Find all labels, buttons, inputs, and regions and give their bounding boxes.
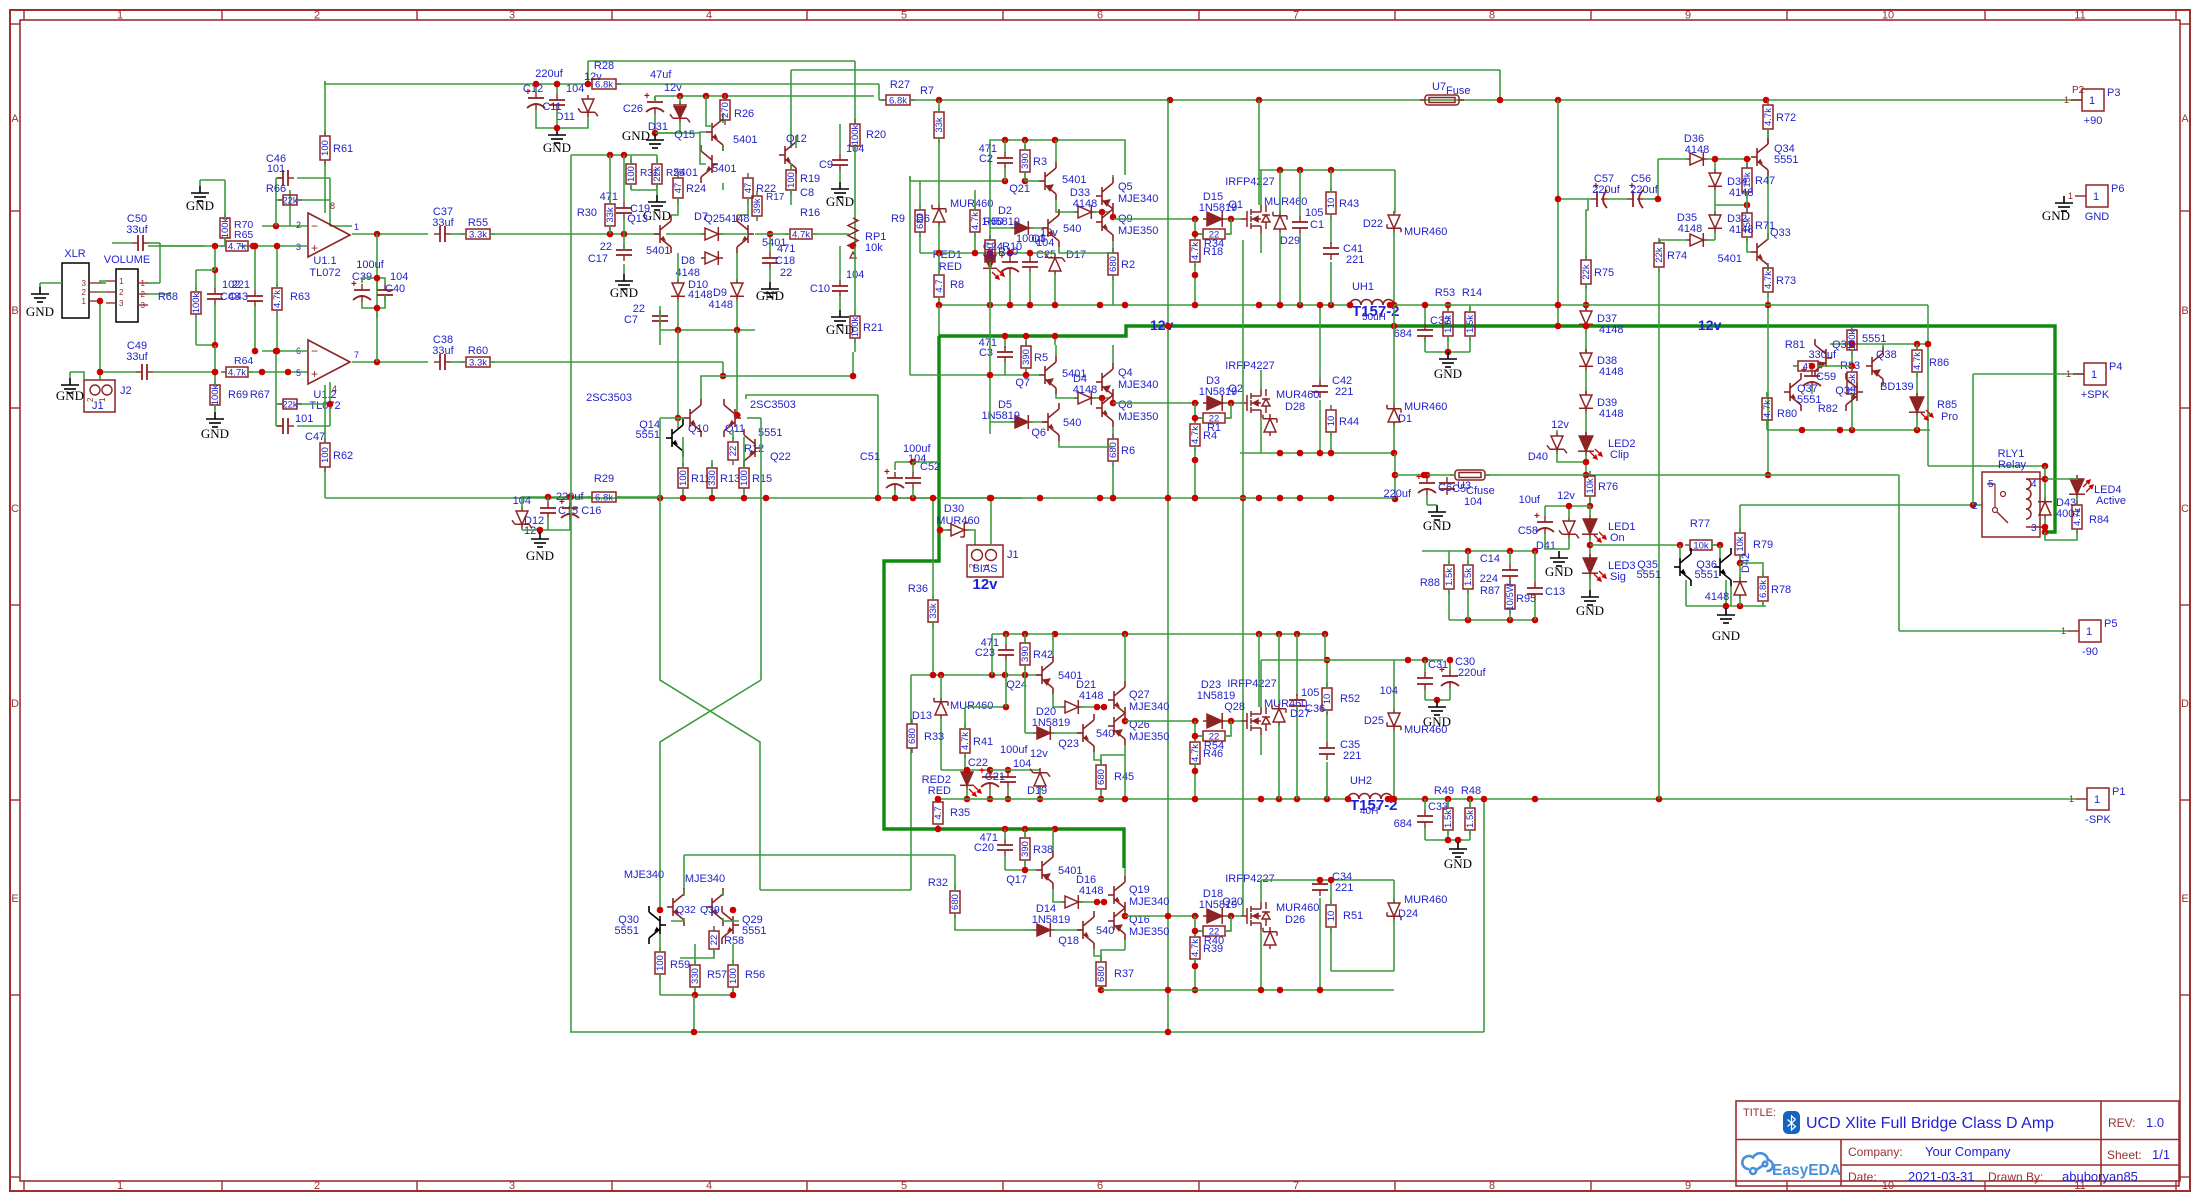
diode D21: [1061, 700, 1083, 714]
wire rail y675: [911, 674, 1042, 676]
svg-text:R86: R86: [1929, 357, 1949, 369]
transistor Q22: [744, 429, 761, 467]
svg-text:1.5k: 1.5k: [1444, 568, 1455, 586]
capacitor C34: [1312, 878, 1328, 896]
svg-text:3.3k: 3.3k: [469, 230, 487, 241]
transistor Q39c: [1846, 373, 1863, 411]
capacitor C19: [616, 202, 632, 219]
svg-text:C26: C26: [623, 103, 643, 115]
wire q35 emitters: [1685, 580, 1687, 606]
svg-text:8: 8: [1489, 1180, 1495, 1192]
svg-text:RED: RED: [939, 261, 962, 273]
svg-text:1: 1: [2061, 626, 2066, 636]
svg-text:224: 224: [1480, 573, 1498, 585]
port P1: [2076, 798, 2087, 800]
svg-text:22: 22: [709, 935, 720, 946]
svg-text:Q11: Q11: [725, 423, 745, 435]
wire gnd to Q15: [655, 132, 700, 134]
svg-text:C22: C22: [968, 757, 988, 769]
wire y57 to y81: [587, 61, 589, 84]
svg-text:R8: R8: [950, 279, 964, 291]
svg-text:R47: R47: [1755, 175, 1775, 187]
resistor R79: [1735, 528, 1745, 560]
port P3: [2071, 99, 2082, 101]
svg-text:R4: R4: [1203, 430, 1217, 442]
wire phase to C32: [1394, 304, 1440, 306]
resistor R80: [1762, 393, 1772, 425]
svg-text:5551: 5551: [636, 429, 660, 441]
diode D35: [1686, 233, 1708, 247]
wire base feeds: [678, 330, 684, 418]
svg-text:6.8k: 6.8k: [889, 96, 907, 107]
svg-text:390: 390: [1020, 153, 1031, 169]
svg-text:MJE340: MJE340: [624, 869, 664, 881]
svg-text:E: E: [11, 893, 18, 905]
svg-text:D22: D22: [1363, 218, 1383, 230]
svg-text:2: 2: [119, 288, 124, 297]
svg-text:U1.1: U1.1: [313, 255, 336, 267]
svg-text:33uf: 33uf: [432, 217, 454, 229]
resistor R6: [1108, 434, 1118, 466]
svg-text:100: 100: [320, 447, 331, 463]
svg-text:4148: 4148: [725, 213, 749, 225]
svg-text:IRFP4227: IRFP4227: [1225, 873, 1275, 885]
svg-text:MUR460: MUR460: [1264, 196, 1307, 208]
ground LED3: [1581, 590, 1599, 605]
diode D1: [1387, 404, 1401, 426]
svg-text:3.3k: 3.3k: [469, 358, 487, 369]
svg-text:Q19: Q19: [1129, 884, 1150, 896]
svg-text:Q23: Q23: [1058, 738, 1079, 750]
wire y475 -90 line: [1500, 474, 1899, 476]
transistor Q3: [1042, 209, 1059, 247]
bluetooth icon: [1783, 1111, 1800, 1134]
svg-text:−: −: [311, 219, 318, 233]
svg-text:R56: R56: [745, 969, 765, 981]
svg-text:R62: R62: [333, 450, 353, 462]
svg-text:220uf: 220uf: [535, 68, 563, 80]
ground D41: [1550, 551, 1568, 566]
svg-text:6.8k: 6.8k: [1758, 580, 1769, 598]
zener D17: [1045, 253, 1065, 275]
svg-text:6: 6: [1097, 10, 1103, 22]
diode D36: [1686, 152, 1708, 166]
wire x1261 lower: [1260, 660, 1262, 680]
diode D9: [730, 279, 744, 301]
svg-text:R74: R74: [1667, 250, 1687, 262]
wire cross diag b: [747, 417, 761, 419]
svg-text:R35: R35: [950, 807, 970, 819]
wire rail y453: [1240, 452, 1395, 454]
wire top rail A: [588, 60, 855, 62]
svg-text:R63: R63: [290, 291, 310, 303]
svg-text:3: 3: [509, 1180, 515, 1192]
resistor R77: [1685, 540, 1717, 550]
ground C6: [1428, 505, 1446, 520]
svg-text:C51: C51: [860, 451, 880, 463]
svg-text:10uf: 10uf: [1519, 494, 1541, 506]
wire base rail y181: [910, 180, 1005, 182]
svg-text:+: +: [1534, 511, 1540, 522]
resistor R63: [272, 283, 282, 315]
svg-text:R14: R14: [1462, 287, 1482, 299]
svg-text:D31: D31: [648, 121, 668, 133]
svg-text:B: B: [2181, 305, 2188, 317]
diode D39: [1579, 391, 1593, 413]
svg-text:12v: 12v: [1557, 490, 1575, 502]
svg-text:R88: R88: [1420, 577, 1440, 589]
resistor R38: [1020, 833, 1030, 865]
svg-text:680: 680: [985, 243, 996, 259]
svg-text:R19: R19: [800, 173, 820, 185]
svg-text:390: 390: [1020, 646, 1031, 662]
led LED3: [1582, 554, 1598, 578]
svg-text:1: 1: [354, 222, 359, 232]
capacitor C50: [132, 235, 149, 251]
wire spk rail y305 right: [1470, 304, 1928, 306]
svg-text:47: 47: [673, 183, 684, 194]
svg-text:4148: 4148: [1685, 144, 1709, 156]
svg-text:R64: R64: [234, 355, 253, 367]
capacitor C15: [540, 502, 556, 519]
wire drain rail y170: [1259, 169, 1395, 171]
svg-text:5551: 5551: [1774, 154, 1798, 166]
svg-text:100k: 100k: [850, 316, 861, 337]
svg-text:5: 5: [296, 368, 301, 378]
svg-text:50uH: 50uH: [1362, 312, 1386, 323]
svg-text:MUR460: MUR460: [936, 515, 979, 527]
svg-text:UCD Xlite Full Bridge Class D: UCD Xlite Full Bridge Class D Amp: [1806, 1115, 2054, 1132]
resistor R48: [1465, 803, 1475, 835]
svg-text:10: 10: [1882, 10, 1894, 22]
capacitor C2: [997, 152, 1013, 169]
svg-text:33uf: 33uf: [126, 224, 148, 236]
svg-text:R81: R81: [1785, 339, 1805, 351]
resistor R14: [1465, 307, 1475, 341]
transistor Q21: [1039, 162, 1056, 200]
resistor R72: [1763, 100, 1773, 134]
svg-text:GND: GND: [1423, 518, 1451, 533]
svg-text:GND: GND: [1576, 603, 1604, 618]
svg-text:4148: 4148: [1599, 408, 1623, 420]
transistor Q15: [706, 113, 723, 151]
resistor R7: [934, 107, 944, 143]
svg-text:101: 101: [295, 413, 313, 425]
wires C12 cluster: [535, 84, 537, 92]
mosfet Q2 IRFP4227: [1241, 389, 1270, 417]
svg-text:B: B: [11, 305, 18, 317]
zener D12: [512, 507, 532, 529]
svg-text:5551: 5551: [1862, 333, 1886, 345]
svg-text:BIAS: BIAS: [972, 563, 997, 575]
svg-text:R78: R78: [1771, 584, 1791, 596]
svg-text:540: 540: [1063, 417, 1081, 429]
svg-text:221: 221: [1335, 882, 1353, 894]
svg-text:4148: 4148: [1079, 690, 1103, 702]
svg-text:+: +: [559, 497, 565, 508]
diode D33: [1074, 205, 1096, 219]
capacitor C36: [1289, 694, 1305, 712]
resistor R24: [673, 173, 683, 203]
transistor Q37: [1784, 373, 1801, 411]
svg-text:R84: R84: [2089, 514, 2109, 526]
resistor R84: [2072, 500, 2082, 534]
svg-text:C7: C7: [624, 314, 638, 326]
wire gnd rail q3536: [1686, 605, 1766, 607]
svg-text:10k: 10k: [1585, 478, 1596, 494]
resistor R4: [1190, 419, 1200, 451]
svg-text:1: 1: [82, 297, 87, 306]
diode D10: [671, 279, 685, 301]
svg-text:GND: GND: [526, 548, 554, 563]
svg-text:220uf: 220uf: [1630, 184, 1658, 196]
wire lower feed: [325, 497, 1022, 499]
resistor R13: [707, 463, 717, 493]
capacitor C48: [207, 288, 223, 305]
wire Q5Q9 join: [1112, 241, 1114, 253]
svg-text:220uf: 220uf: [1458, 667, 1486, 679]
zener D11: [578, 95, 598, 117]
svg-text:5551: 5551: [1637, 569, 1661, 581]
svg-text:Clip: Clip: [1610, 449, 1629, 461]
svg-text:+: +: [644, 91, 650, 102]
svg-text:D40: D40: [1528, 451, 1548, 463]
wire prot top rail: [1830, 343, 1928, 345]
capacitor C9: [832, 154, 848, 171]
svg-text:Date:: Date:: [1848, 1170, 1877, 1184]
svg-text:IRFP4227: IRFP4227: [1227, 678, 1277, 690]
resistor R21: [850, 311, 860, 343]
led RED2: [960, 768, 974, 790]
wire R62 column: [324, 385, 326, 443]
capacitor C7: [652, 310, 668, 327]
resistor R2: [1108, 248, 1118, 280]
svg-text:-SPK: -SPK: [2085, 814, 2111, 826]
svg-text:MUR460: MUR460: [1276, 902, 1319, 914]
svg-text:R60: R60: [468, 345, 488, 357]
svg-text:D1: D1: [1398, 413, 1412, 425]
svg-text:1.5k: 1.5k: [1443, 315, 1454, 333]
connector J1 BIAS: [967, 545, 1003, 577]
wire P5: [1899, 630, 2068, 632]
diode D7: [701, 227, 723, 241]
diode D32: [1708, 211, 1722, 233]
svg-text:C21: C21: [985, 771, 1005, 783]
svg-text:abuboryan85: abuboryan85: [2062, 1169, 2138, 1184]
volume pot: [116, 269, 138, 322]
svg-text:R55: R55: [468, 217, 488, 229]
wire crossover to R32: [684, 854, 955, 856]
transistor Q35: [1674, 548, 1691, 586]
resistor R64: [221, 367, 253, 377]
svg-text:R59: R59: [670, 959, 690, 971]
svg-text:1: 1: [2089, 95, 2095, 107]
wire top feed to C12 cluster: [324, 81, 326, 85]
EasyEDA logo: [1742, 1153, 1772, 1174]
svg-text:D11: D11: [556, 111, 575, 123]
svg-text:5401: 5401: [1718, 253, 1742, 265]
svg-text:4.7k: 4.7k: [1190, 242, 1201, 260]
bold 12v bus: [939, 326, 2055, 532]
resistor R60: [461, 357, 495, 367]
svg-text:GND: GND: [1712, 628, 1740, 643]
resistor R39: [1190, 932, 1200, 964]
wire U1.2 inputs: [262, 350, 308, 352]
resistor R34: [1198, 229, 1230, 239]
resistor R69: [210, 380, 220, 410]
svg-text:C13: C13: [1545, 586, 1565, 598]
capacitor C12: [527, 92, 545, 110]
svg-text:4.7k: 4.7k: [2072, 508, 2083, 526]
wire Q36 base node: [1730, 586, 1732, 606]
resistor R44: [1326, 405, 1336, 437]
svg-text:R46: R46: [1203, 748, 1223, 760]
wire Q12 riser: [790, 70, 792, 148]
svg-text:100: 100: [626, 166, 637, 182]
resistor R31: [626, 159, 636, 189]
wire rail y660: [1261, 659, 1443, 661]
resistor R74: [1654, 238, 1664, 272]
svg-text:R77: R77: [1690, 518, 1710, 530]
svg-text:D41: D41: [1536, 540, 1556, 552]
svg-text:104: 104: [390, 271, 408, 283]
svg-text:47uf: 47uf: [650, 69, 672, 81]
svg-text:D17: D17: [1066, 249, 1086, 261]
wire Q27 out rail: [1125, 720, 1199, 722]
transistor Q30: [649, 906, 666, 944]
resistor R30: [605, 199, 615, 231]
svg-text:1.5k: 1.5k: [1465, 810, 1476, 828]
svg-text:1: 1: [2091, 369, 2097, 381]
svg-text:22: 22: [728, 446, 739, 457]
capacitor C57: [1591, 190, 1607, 208]
svg-text:3: 3: [141, 301, 146, 310]
svg-text:GND: GND: [543, 140, 571, 155]
svg-text:2: 2: [141, 290, 146, 299]
wire prot links: [1836, 365, 1852, 367]
svg-text:Q20: Q20: [1222, 896, 1243, 908]
resistor R57: [690, 960, 700, 992]
svg-text:GND: GND: [2085, 211, 2110, 223]
resistor R26: [720, 95, 730, 125]
svg-text:11: 11: [2074, 10, 2085, 22]
transistor Q32: [667, 888, 684, 926]
wire phase2 to P1: [1392, 798, 2076, 800]
transistor Q29: [722, 906, 739, 944]
svg-text:Q24: Q24: [1006, 679, 1027, 691]
resistor R40: [1198, 926, 1230, 936]
wire opamp+ input: [240, 245, 308, 247]
diode D27: [1272, 704, 1286, 726]
capacitor C32: [1417, 324, 1433, 342]
resistor R58: [709, 926, 719, 954]
svg-text:12v: 12v: [1698, 317, 1722, 333]
svg-text:104: 104: [1380, 685, 1398, 697]
resistor R9: [915, 205, 925, 237]
svg-text:4.7k: 4.7k: [960, 732, 971, 750]
diode D15: [1203, 211, 1227, 227]
svg-text:C2: C2: [979, 153, 993, 165]
svg-text:+: +: [1439, 665, 1445, 676]
svg-text:40H: 40H: [1360, 806, 1378, 817]
svg-text:4.7k: 4.7k: [228, 368, 246, 379]
svg-text:D19: D19: [1027, 785, 1047, 797]
svg-text:MJE340: MJE340: [1129, 896, 1169, 908]
svg-text:5401: 5401: [733, 134, 757, 146]
svg-text:105: 105: [1301, 687, 1319, 699]
svg-text:1: 1: [117, 10, 123, 22]
resistor R49: [1443, 803, 1453, 835]
svg-text:+SPK: +SPK: [2081, 389, 2110, 401]
svg-text:+: +: [311, 241, 318, 255]
svg-text:22k: 22k: [282, 196, 298, 207]
svg-text:104: 104: [566, 83, 584, 95]
inductor UH1: [1350, 300, 1394, 306]
capacitor C58: [1536, 516, 1554, 534]
svg-text:4.7k: 4.7k: [1190, 426, 1201, 444]
led LED2: [1578, 432, 1594, 456]
wire out to D15: [1113, 218, 1199, 220]
svg-text:5: 5: [901, 1180, 907, 1192]
svg-text:R3: R3: [1033, 156, 1047, 168]
capacitor C11: [549, 94, 565, 111]
svg-text:R44: R44: [1339, 416, 1359, 428]
svg-text:100: 100: [655, 955, 666, 971]
svg-text:1: 1: [2064, 95, 2069, 105]
wire R8 to bold: [938, 305, 940, 336]
wire red1 top rail: [920, 252, 1055, 254]
svg-text:P3: P3: [2107, 87, 2120, 99]
svg-text:5401: 5401: [712, 163, 736, 175]
ground D12: [531, 532, 549, 547]
svg-text:12v: 12v: [1030, 748, 1048, 760]
resistor R65: [221, 241, 253, 251]
diode D4: [1074, 391, 1096, 405]
svg-text:100k: 100k: [220, 217, 231, 238]
svg-text:R76: R76: [1598, 481, 1618, 493]
diode D37: [1579, 307, 1593, 329]
capacitor C22: [981, 771, 999, 789]
svg-text:R6: R6: [1121, 445, 1135, 457]
svg-text:GND: GND: [1423, 714, 1451, 729]
svg-text:MUR460: MUR460: [1276, 389, 1319, 401]
svg-text:680: 680: [1108, 442, 1119, 458]
svg-text:330: 330: [690, 968, 701, 984]
svg-text:+: +: [884, 467, 890, 478]
svg-text:100: 100: [320, 140, 331, 156]
ground C33: [1449, 842, 1467, 857]
diode D6: [932, 204, 946, 226]
resistor R32: [950, 886, 960, 918]
diode D22: [1387, 211, 1401, 233]
svg-text:+90: +90: [2084, 115, 2103, 127]
capacitor C41: [1323, 242, 1339, 260]
ground C26: [646, 133, 664, 148]
svg-text:12v: 12v: [1551, 419, 1569, 431]
svg-text:R26: R26: [734, 108, 754, 120]
wire to volume wiper: [148, 245, 222, 247]
svg-text:680: 680: [1108, 256, 1119, 272]
wire top rail B: [791, 69, 1500, 71]
diode D8: [701, 251, 723, 265]
capacitor C16: [561, 502, 579, 520]
port P4: [2073, 373, 2084, 375]
resistor R33: [907, 719, 917, 753]
svg-text:220uf: 220uf: [1592, 184, 1620, 196]
svg-text:R38: R38: [1033, 844, 1053, 856]
wire U1.1 out network: [352, 233, 428, 235]
svg-text:100: 100: [728, 968, 739, 984]
